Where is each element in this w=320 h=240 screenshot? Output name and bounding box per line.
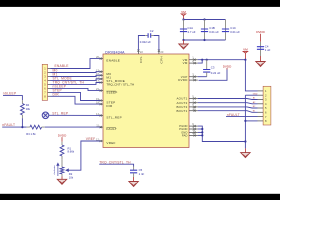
capacitor C1B lead — [204, 20, 206, 41]
capacitor C5 top lead — [133, 167, 135, 171]
svg-text:DIR: DIR — [53, 93, 60, 97]
capacitor C2 left lead — [145, 35, 148, 37]
IC U1 right pin VM stub — [189, 62, 198, 64]
svg-text:DVDD: DVDD — [256, 30, 265, 34]
svg-text:DVDD: DVDD — [58, 133, 67, 137]
wire VREF from wiper — [69, 141, 101, 170]
junction PGND2 — [201, 128, 203, 130]
svg-text:PGND: PGND — [179, 127, 187, 131]
wire VM top rail — [184, 19, 226, 21]
resistor R3 1.5k — [27, 125, 45, 129]
svg-text:1 nF: 1 nF — [139, 172, 145, 176]
wire VM pin2 jog — [198, 60, 202, 63]
svg-text:STL_REP: STL_REP — [106, 116, 122, 120]
wire nFAULT left — [2, 126, 27, 128]
wire PGND2 to rail — [198, 128, 203, 130]
junction VM bottom rail — [203, 39, 205, 41]
wire VM to connector pin1 — [245, 60, 257, 91]
pin cross FAULT — [100, 126, 102, 128]
pin cross DIR — [100, 103, 102, 105]
wire BOUT2 to connector — [198, 107, 258, 108]
power symbol DVDD (top right) — [256, 30, 265, 42]
IC U1 right pin AOUT2 stub — [189, 102, 198, 104]
capacitor C5 bottom lead — [133, 173, 135, 177]
svg-text:DVDD: DVDD — [223, 64, 232, 68]
connector JP1 pin 6 stub — [258, 111, 264, 113]
svg-text:C2: C2 — [150, 29, 154, 33]
junction PAD — [201, 134, 203, 136]
capacitor C1A lead — [183, 20, 185, 41]
connector JP2 pin 7 stub — [48, 91, 51, 93]
IC U1 right pin VM stub — [189, 59, 198, 61]
ground under C4 — [256, 62, 265, 67]
wire BOUT1 to connector — [198, 111, 258, 113]
svg-text:nFAULT: nFAULT — [2, 123, 15, 127]
pin cross PGND — [194, 128, 196, 130]
svg-text:DVDD: DVDD — [178, 78, 187, 82]
IC U1 left pin TRQ_CNT / STL_TH stub — [101, 82, 104, 84]
IC U1 right pin VCP stub — [189, 76, 198, 78]
IC U1 left pin DIR stub — [101, 103, 104, 105]
capacitor C3 — [203, 70, 210, 73]
capacitor C5 — [130, 170, 137, 173]
IC U1 right pin GND stub — [189, 131, 198, 133]
ground stub under R2 — [61, 177, 63, 180]
ground right connector — [241, 153, 250, 158]
connector JP1 pin 8 stub — [258, 120, 264, 122]
capacitor C2 right lead — [151, 35, 154, 37]
wire GND to connector pin8 — [245, 120, 257, 122]
wire VM bottom rail — [184, 39, 226, 41]
resistor R1 — [60, 142, 64, 159]
IC U1 right pin DVDD stub — [189, 79, 198, 81]
pin cross PGND — [194, 125, 196, 127]
svg-text:C3: C3 — [211, 65, 215, 69]
pin cross STEP — [100, 99, 102, 101]
capacitor C1B — [201, 29, 208, 32]
IC U1 right pin PAD stub — [189, 134, 198, 136]
wire net STEP — [51, 92, 101, 100]
wire AOUT1 to connector — [198, 99, 258, 100]
junction ground tie — [182, 39, 184, 41]
svg-text:DRV8434A: DRV8434A — [105, 51, 125, 55]
pin cross STL_MODE — [100, 78, 102, 80]
pin cross TRQ_CNT / STL_TH — [100, 81, 102, 83]
connector JP1 pin 3 stub — [258, 99, 264, 101]
pin cross ENABLE — [100, 58, 102, 60]
pin cross CPL — [137, 50, 139, 52]
wire net TRQ_CNT/STL_TH — [51, 83, 101, 85]
svg-text:1 uF: 1 uF — [265, 48, 271, 52]
op IC U1 DRV8434A body — [103, 54, 189, 148]
svg-text:0.01 uF: 0.01 uF — [230, 30, 240, 34]
connector JP2 pin 6 stub — [48, 87, 51, 89]
svg-text:clockwise: clockwise — [54, 165, 56, 175]
connector JP1 pin 4 stub — [258, 103, 264, 105]
power symbol VM (right) — [243, 48, 248, 60]
svg-text:ENABLE: ENABLE — [106, 59, 120, 63]
pin cross PAD — [194, 134, 196, 136]
pin cross AOUT2 — [194, 102, 196, 104]
wire C3 to VCP — [198, 76, 207, 78]
pot top lead — [61, 159, 63, 167]
svg-text:VREF: VREF — [106, 141, 115, 145]
IC U1 top pin CPL stub — [137, 51, 139, 55]
svg-text:VM: VM — [181, 10, 186, 14]
svg-text:R3 1.5k: R3 1.5k — [26, 132, 36, 136]
IC U1 left pin STEP stub — [101, 100, 104, 102]
pin cross M1 — [100, 74, 102, 76]
connector JP2 pin 4 stub — [48, 79, 51, 81]
capacitor C1C — [222, 29, 229, 32]
svg-text:R1: R1 — [68, 146, 72, 150]
wire net ENABLE — [51, 59, 101, 69]
overline for FAULT — [106, 127, 116, 129]
connector JP1 pin 1 stub — [258, 90, 264, 92]
wire nFAULT to connector pin7 — [226, 116, 258, 118]
pin cross VM — [194, 62, 196, 64]
pin cross BOUT2 — [194, 106, 196, 108]
svg-text:VM: VM — [183, 61, 188, 65]
IC U1 right pin BOUT1 stub — [189, 110, 198, 112]
power symbol VM (top) — [181, 10, 186, 20]
junction VM pin2 tie — [201, 59, 203, 61]
ground under C1A — [179, 44, 188, 49]
wire nFAULT to IC — [45, 126, 101, 128]
svg-text:10k: 10k — [69, 176, 74, 180]
svg-text:STL_REP: STL_REP — [52, 111, 69, 115]
svg-text:25: 25 — [192, 131, 195, 135]
svg-text:CPL: CPL — [139, 56, 143, 63]
svg-text:BOUT1: BOUT1 — [176, 109, 187, 113]
junction GND — [201, 131, 203, 133]
pin cross BOUT1 — [194, 110, 196, 112]
connector JP1 pin 2 stub — [258, 94, 264, 96]
IC U1 right pin BOUT2 stub — [189, 106, 198, 108]
svg-text:4.7 uF: 4.7 uF — [188, 30, 196, 34]
ground stub under C4 — [260, 56, 262, 62]
svg-text:R4: R4 — [26, 103, 30, 107]
svg-text:0.022 uF: 0.022 uF — [140, 40, 151, 44]
wire PGND rail — [198, 126, 246, 141]
pin cross GND — [194, 131, 196, 133]
capacitor C1A — [180, 29, 187, 32]
connector JP2 pin 1 stub — [48, 68, 51, 70]
IC U1 left pin STL_REP stub — [101, 114, 104, 116]
connector JP1 pin 7 stub — [258, 116, 264, 118]
wire net M0 — [51, 71, 101, 74]
wire GND vertical right — [244, 95, 246, 148]
pin cross DVDD — [194, 79, 196, 81]
wire net DIR — [51, 96, 101, 104]
svg-text:10: 10 — [192, 107, 195, 111]
junction GND rail tie — [244, 140, 246, 142]
connector JP2 pin 3 stub — [48, 76, 51, 78]
pin cross STL_REP — [100, 114, 102, 116]
svg-text:23: 23 — [160, 50, 163, 54]
svg-text:GND: GND — [253, 93, 258, 95]
junction VM rail left — [182, 18, 184, 20]
resistor R4 — [21, 100, 25, 118]
IC U1 top pin CPH stub — [158, 51, 160, 55]
overline for SLEEP — [106, 90, 116, 92]
IC U1 left pin STL_MODE stub — [101, 78, 104, 80]
pin cross SLEEP — [100, 90, 102, 92]
svg-text:22: 22 — [140, 50, 143, 54]
capacitor C3 bottom lead — [206, 72, 208, 77]
svg-text:ENABLE: ENABLE — [55, 64, 70, 68]
svg-text:0.22 uF: 0.22 uF — [211, 71, 221, 75]
svg-text:R2: R2 — [69, 172, 73, 176]
svg-text:8.66k: 8.66k — [68, 150, 75, 154]
IC U1 left pin SLEEP stub — [101, 90, 104, 92]
potentiometer R2 — [60, 167, 64, 174]
pin cross VM — [194, 59, 196, 61]
connector JP1 body (power/output header) — [263, 86, 271, 125]
IC U1 left pin ENABLE stub — [101, 58, 104, 60]
wire GND to connector pin2 — [245, 94, 257, 96]
IC U1 right pin PGND stub — [189, 125, 198, 127]
ground stub right — [244, 148, 246, 152]
capacitor C2 — [148, 33, 151, 38]
ground stub under C5 — [133, 177, 135, 182]
wire DVDD pin to symbol — [199, 70, 228, 81]
junction R4/nFAULT — [21, 126, 23, 128]
capacitor C4 leads — [260, 42, 262, 56]
top letterbox bar — [0, 0, 280, 7]
capacitor C4 — [257, 47, 264, 50]
power symbol DVDD (near IC) — [223, 64, 232, 69]
svg-text:DIR: DIR — [106, 104, 113, 108]
svg-text:10k: 10k — [26, 107, 31, 111]
pin cross M0 — [100, 71, 102, 73]
wire PAD to rail — [198, 134, 203, 136]
connector JP2 pin 8 stub — [48, 95, 51, 97]
wire AOUT2 to connector — [198, 103, 258, 104]
pin cross AOUT1 — [194, 97, 196, 99]
pin cross VREF — [100, 140, 102, 142]
svg-text:VREF: VREF — [86, 137, 96, 141]
connector JP2 pin 5 stub — [48, 83, 51, 85]
wire nSLEEP stub — [3, 96, 22, 101]
capacitor C1C lead — [225, 20, 227, 41]
potentiometer R2 wiper arrow — [66, 169, 69, 171]
IC U1 right pin AOUT1 stub — [189, 98, 198, 100]
ground under R2 — [57, 179, 66, 184]
wire VM pin1 to VM label — [198, 59, 246, 61]
clockwise direction arrow — [57, 163, 59, 176]
svg-text:TRQ_CNT/STL_TH: TRQ_CNT/STL_TH — [99, 160, 131, 164]
IC U1 left pin VREF stub — [101, 140, 104, 142]
ground under C5 — [129, 182, 138, 187]
connector JP2 body (control header) — [42, 64, 47, 100]
svg-text:0.01 uF: 0.01 uF — [209, 30, 219, 34]
wire STL_REP to IC — [49, 114, 101, 116]
svg-text:CPH: CPH — [159, 56, 163, 63]
junction VM vertical — [244, 59, 246, 61]
pin cross CPH — [158, 50, 160, 52]
via/jumper STL_REP circle — [42, 112, 49, 119]
power symbol DVDD (VREF divider) — [58, 133, 67, 141]
bottom letterbox bar — [0, 194, 280, 200]
wire net STL_MODE — [51, 79, 101, 81]
svg-text:PAD: PAD — [182, 134, 188, 138]
connector JP2 pin 2 stub — [48, 72, 51, 74]
svg-text:nSLEEP: nSLEEP — [3, 91, 17, 95]
connector JP1 pin 5 stub — [258, 107, 264, 109]
wire CPL to C2 — [138, 36, 145, 51]
IC U1 left pin M0 stub — [101, 71, 104, 73]
IC U1 left pin M1 stub — [101, 74, 104, 76]
capacitor C3 top lead — [206, 60, 208, 70]
pin cross VCP — [194, 76, 196, 78]
wire net nSLEEP — [51, 88, 101, 90]
junction GND to connector pin8 — [244, 120, 246, 122]
wire C2 to CPH — [154, 36, 159, 51]
wire R4 to nFAULT — [21, 118, 23, 127]
ground stub under C1A — [183, 40, 185, 44]
junction C3 tie — [206, 59, 208, 61]
svg-text:TRQ_CNT / STL_TH: TRQ_CNT / STL_TH — [106, 83, 134, 87]
IC U1 left pin FAULT stub — [101, 126, 104, 128]
wire GND to rail — [198, 131, 203, 133]
IC U1 right pin PGND stub — [189, 128, 198, 130]
svg-text:VM: VM — [243, 48, 248, 52]
wire TRQ_CNT to C5 — [99, 164, 133, 166]
wire net M1 — [51, 75, 101, 76]
junction VM rail middle — [203, 18, 205, 20]
pot bottom lead — [61, 174, 63, 177]
